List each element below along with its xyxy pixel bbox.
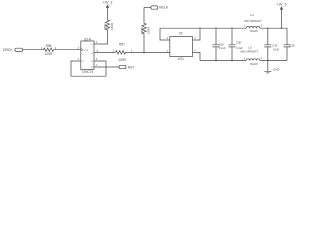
resistor R58 [44,48,54,51]
svg-text:IND-UPRIGHT: IND-UPRIGHT [240,50,258,54]
svg-text:2: 2 [261,57,263,60]
ground [264,61,271,73]
flag RST oval [119,65,126,68]
svg-text:1: 1 [244,25,246,28]
svg-text:XO1: XO1 [178,57,185,61]
capacitor C36 [213,28,220,60]
svg-text:C39: C39 [272,44,277,48]
svg-text:IND-UPRIGHT: IND-UPRIGHT [244,19,262,23]
capacitor C28 [284,28,291,60]
wire DRCK to R58 [23,49,44,51]
svg-text:C36: C36 [219,43,224,47]
svg-text:Q: Q [91,61,93,63]
resistor R64 [142,8,146,53]
svg-text:DRCK: DRCK [3,48,13,52]
power +3V_3 flag [106,4,109,8]
wire U3 pin5 Q to R57 [94,51,116,53]
svg-text:100R: 100R [147,26,151,34]
svg-text:R58: R58 [46,44,52,48]
svg-text:0.1uF: 0.1uF [236,46,243,50]
svg-text:+3V_3: +3V_3 [277,2,287,6]
svg-text:100R: 100R [118,58,126,62]
wire bottom rail [200,60,287,62]
wire R57 to oscillator pin1 [126,51,170,53]
oscillator X2 box [170,37,193,57]
svg-text:MCLK: MCLK [159,6,169,10]
svg-text:0.1uF: 0.1uF [219,46,226,50]
node junction R64 [143,52,144,53]
capacitor C39 [264,28,271,60]
flag DRCK oval [15,48,23,51]
wire osc pin3 to top rail [193,28,201,40]
wire osc pin4 to bottom rail [193,52,201,60]
svg-text:D: D [82,61,84,63]
resistor R62 [105,20,109,30]
svg-text:X2: X2 [179,31,183,35]
svg-text:1: 1 [167,49,169,52]
wire R58 to U3 CLK [54,49,81,51]
svg-text:Wurth: Wurth [250,29,258,33]
svg-text:R62: R62 [103,23,107,29]
svg-text:S: S [91,44,93,46]
svg-text:120R: 120R [45,52,53,56]
power +3V_3 flag right [281,10,283,29]
svg-text:L4: L4 [250,13,254,17]
wire top rail [160,27,287,29]
svg-text:2: 2 [261,25,263,28]
wire osc pin2 jog to top rail [160,28,170,40]
svg-text:CLK: CLK [84,50,89,52]
svg-text:+3V_3: +3V_3 [103,1,113,5]
svg-text:Wurth: Wurth [250,62,258,66]
svg-text:Q: Q [91,53,93,55]
capacitor C38 [229,28,236,60]
svg-text:10uF: 10uF [273,47,279,51]
op-amp U3-A flip-flop box [81,41,94,70]
flag DRCK label [3,48,13,52]
svg-text:RST: RST [128,66,134,70]
wire R64 to MCLK flag [144,7,151,9]
svg-text:C38: C38 [236,41,241,45]
node junctions top rail [199,28,200,29]
clock wedge pin CLK [81,48,84,51]
node junctions bottom rail [215,60,216,61]
svg-text:U3-A: U3-A [84,37,92,41]
resistor R57 [116,51,126,54]
wire U3 pin6 Qbar feedback [71,61,106,76]
wire U3 pin4 PRE to R62 [94,30,108,44]
svg-text:C28: C28 [290,43,295,47]
wire U3 pin1 CLR to RST [94,66,119,68]
svg-text:R57: R57 [119,43,125,47]
svg-text:GND: GND [273,67,281,71]
svg-text:L5: L5 [248,45,252,49]
svg-text:100R: 100R [110,22,114,30]
inductor L5 [246,59,260,61]
svg-text:1: 1 [244,57,246,60]
wire R62 to +3V_3 [107,8,109,20]
svg-text:R64: R64 [140,27,144,33]
inductor L4 [246,26,260,28]
svg-text:74HC74: 74HC74 [82,70,94,74]
svg-text:4: 4 [194,49,196,52]
flag MCLK oval [151,6,158,9]
svg-text:R: R [91,67,93,69]
